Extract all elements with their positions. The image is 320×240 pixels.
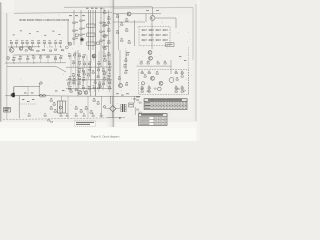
svg-text:Figure 8. Circuit diagram: Figure 8. Circuit diagram <box>91 135 119 139</box>
svg-text:BUSH RADIO TR82C 2 CIRCUIT AND: BUSH RADIO TR82C 2 CIRCUIT AND VOLTS <box>20 19 70 22</box>
